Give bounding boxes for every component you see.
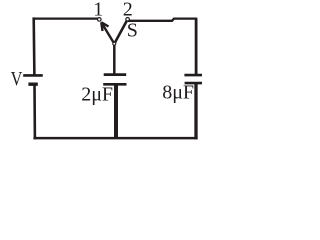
wire left side lower bbox=[33, 84, 36, 139]
capacitor C2 8uF top plate bbox=[184, 74, 203, 77]
wire left side upper bbox=[32, 17, 35, 75]
wire top-left segment bbox=[34, 17, 100, 19]
switch terminal node 2 bbox=[126, 18, 130, 22]
wire right side upper bbox=[195, 19, 198, 76]
wire middle branch upper bbox=[113, 44, 116, 75]
switch terminal node 1 bbox=[98, 18, 102, 22]
svg-text:8μF: 8μF bbox=[162, 82, 194, 104]
wire bottom bbox=[33, 137, 197, 140]
wire top-right segment with step bbox=[128, 19, 198, 21]
capacitor C1 2uF bottom plate bbox=[103, 83, 126, 86]
wire right side lower bbox=[194, 83, 197, 139]
svg-text:V: V bbox=[11, 68, 23, 90]
svg-text:2μF: 2μF bbox=[81, 83, 113, 105]
switch pivot node bbox=[113, 42, 116, 45]
capacitor C1 2uF top plate bbox=[104, 73, 127, 76]
battery V long plate bbox=[23, 74, 43, 77]
svg-text:1: 1 bbox=[93, 0, 103, 21]
wire middle branch lower bbox=[114, 84, 118, 139]
svg-text:S: S bbox=[127, 20, 138, 42]
svg-text:2: 2 bbox=[123, 0, 133, 21]
capacitor C2 8uF bottom plate bbox=[185, 82, 203, 85]
switch arrow barb down bbox=[101, 22, 102, 31]
switch arm blade to terminal 2 bbox=[114, 19, 127, 43]
battery V short plate bbox=[28, 82, 37, 85]
switch arrow barb right bbox=[101, 22, 108, 26]
switch arrow shaft toward terminal 1 bbox=[101, 22, 114, 43]
